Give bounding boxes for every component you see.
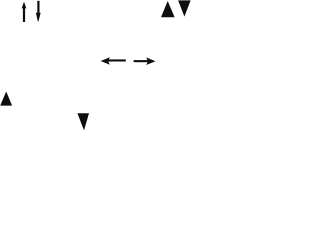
filled up triangle (top-right) [161, 1, 175, 17]
filled down triangle (bottom-middle) [77, 113, 89, 130]
filled down triangle (top-right corner) [178, 0, 191, 16]
up arrow (thin, top-left) [22, 2, 27, 22]
filled up triangle (bottom-left) [0, 92, 12, 106]
right arrow (middle) [134, 57, 156, 65]
left arrow (middle) [101, 57, 126, 65]
down arrow (thin, top-left) [36, 1, 41, 22]
